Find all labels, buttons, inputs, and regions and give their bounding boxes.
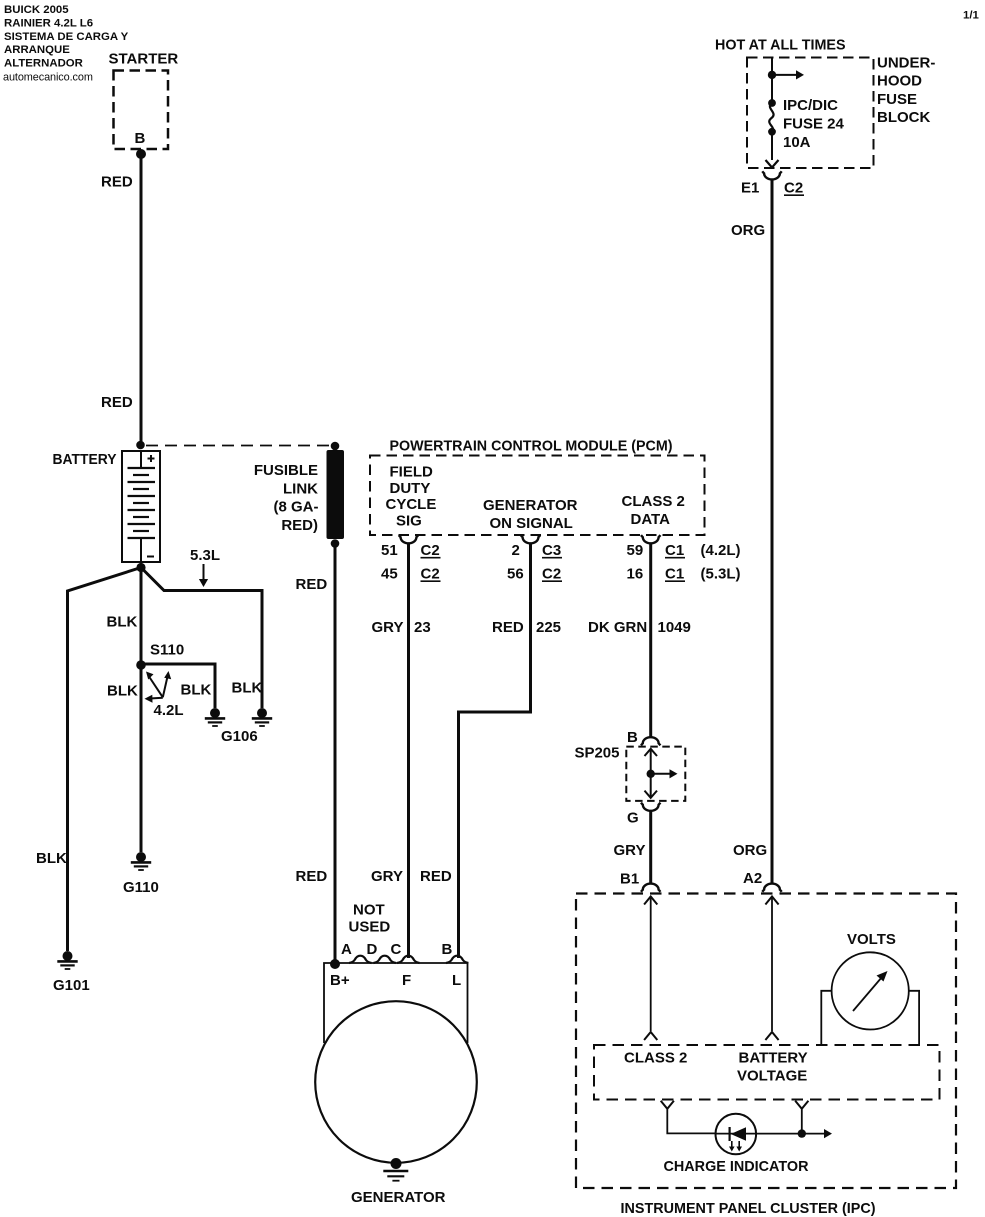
svg-text:POWERTRAIN CONTROL MODULE (PCM: POWERTRAIN CONTROL MODULE (PCM) bbox=[390, 438, 673, 455]
volts gauge needle bbox=[853, 971, 888, 1011]
ground G106 left bbox=[205, 708, 225, 726]
pin label C2 bbox=[542, 566, 562, 583]
svg-text:B: B bbox=[135, 130, 146, 147]
svg-text:RED: RED bbox=[492, 619, 524, 636]
fuse 24 bottom dot bbox=[768, 128, 776, 136]
svg-text:RED: RED bbox=[296, 576, 328, 593]
generator bump D bbox=[374, 956, 396, 963]
arrow feed to other circuits bbox=[772, 70, 804, 79]
svg-text:RED): RED) bbox=[281, 517, 318, 534]
LED emission arrows bbox=[729, 1141, 742, 1152]
dashed tie wire battery to fusible link bbox=[146, 445, 331, 447]
svg-text:225: 225 bbox=[536, 619, 561, 636]
LED triangle bbox=[731, 1127, 746, 1141]
generator bump B bbox=[446, 956, 468, 963]
svg-text:FUSE 24: FUSE 24 bbox=[783, 116, 845, 133]
generator bump A bbox=[349, 956, 371, 963]
svg-text:BLK: BLK bbox=[107, 614, 138, 631]
label BATTERY VOLTAGE bbox=[737, 1050, 808, 1085]
node B junction dot bbox=[136, 149, 146, 159]
battery top lead bbox=[140, 451, 142, 468]
pin label C3 bbox=[542, 542, 562, 559]
wire ORG fuse block to IPC A2 bbox=[771, 180, 774, 884]
svg-text:59: 59 bbox=[627, 542, 644, 559]
svg-text:CHARGE INDICATOR: CHARGE INDICATOR bbox=[664, 1158, 809, 1175]
svg-text:FIELD: FIELD bbox=[390, 464, 433, 481]
SP205 arrow right bbox=[651, 769, 678, 778]
LED cathode bar bbox=[728, 1127, 730, 1141]
svg-text:23: 23 bbox=[414, 619, 431, 636]
wire fuse to connector bbox=[771, 132, 773, 160]
svg-text:56: 56 bbox=[507, 566, 524, 583]
svg-text:DK GRN: DK GRN bbox=[588, 619, 647, 636]
svg-text:C2: C2 bbox=[421, 566, 440, 583]
PCM pin 51 connector cup bbox=[399, 535, 418, 543]
pin label C2 bbox=[784, 180, 804, 197]
svg-text:GENERATOR: GENERATOR bbox=[351, 1189, 446, 1206]
pin label C2 bbox=[421, 566, 441, 583]
svg-text:A: A bbox=[341, 941, 352, 958]
ground G110 bbox=[131, 852, 151, 870]
header title block bbox=[3, 4, 129, 84]
volts gauge circle bbox=[832, 952, 909, 1029]
svg-text:B: B bbox=[627, 729, 638, 746]
generator body box bbox=[324, 963, 468, 1043]
wire BLK battery to S110 bbox=[140, 568, 143, 666]
svg-text:16: 16 bbox=[627, 566, 644, 583]
wire GRY SP205 to IPC B1 bbox=[649, 811, 652, 883]
connector cup B1 bbox=[641, 884, 660, 892]
wire RED starter to battery bbox=[140, 154, 143, 445]
svg-text:ARRANQUE: ARRANQUE bbox=[4, 44, 70, 56]
arrow 4.2L pointer left bbox=[145, 695, 163, 703]
svg-text:4.2L: 4.2L bbox=[154, 702, 184, 719]
svg-text:BLK: BLK bbox=[232, 680, 263, 697]
fusible link bottom dot bbox=[331, 539, 340, 548]
svg-text:GRY: GRY bbox=[614, 842, 646, 859]
underhood fuse block dashed box bbox=[747, 58, 874, 169]
svg-text:ORG: ORG bbox=[731, 222, 765, 239]
battery top junction dot bbox=[136, 441, 145, 450]
svg-text:FUSIBLE: FUSIBLE bbox=[254, 462, 318, 479]
junction dot feed bbox=[768, 71, 776, 79]
wire RED 225 PCM to generator L bbox=[459, 543, 531, 958]
splice SP205 dashed box bbox=[626, 747, 685, 801]
svg-text:RED: RED bbox=[101, 394, 133, 411]
svg-text:IPC/DIC: IPC/DIC bbox=[783, 97, 838, 114]
arrow 4.2L pointer to wire bbox=[163, 671, 171, 697]
PCM pin 59 connector cup bbox=[641, 535, 660, 543]
svg-text:SIG: SIG bbox=[396, 512, 422, 529]
svg-text:VOLTAGE: VOLTAGE bbox=[737, 1067, 807, 1084]
svg-text:1/1: 1/1 bbox=[963, 10, 979, 22]
wire inside fuse block bbox=[771, 58, 773, 104]
wire DK GRN 1049 PCM to SP205 bbox=[649, 543, 652, 737]
svg-text:A2: A2 bbox=[743, 870, 762, 887]
SP205 junction dot bbox=[647, 770, 655, 778]
svg-text:2: 2 bbox=[512, 542, 520, 559]
svg-text:C: C bbox=[391, 941, 402, 958]
battery bottom junction dot bbox=[136, 563, 145, 572]
svg-text:B: B bbox=[442, 941, 453, 958]
generator ground dot bbox=[391, 1158, 402, 1169]
svg-text:D: D bbox=[367, 941, 378, 958]
label NOT USED bbox=[349, 902, 391, 936]
wire RED fusible link to generator B+ bbox=[334, 544, 337, 965]
connector cup G below SP205 bbox=[641, 803, 660, 811]
label CLASS 2 DATA bbox=[622, 493, 685, 528]
battery B1 box bbox=[122, 451, 160, 562]
svg-text:UNDER-: UNDER- bbox=[877, 55, 935, 72]
charge indicator lamp circle bbox=[716, 1114, 757, 1155]
svg-text:C1: C1 bbox=[665, 542, 684, 559]
battery voltage terminal right bbox=[795, 1101, 808, 1134]
label UNDER-HOOD FUSE BLOCK bbox=[877, 55, 935, 127]
label IPC/DIC FUSE 24 10A bbox=[783, 97, 845, 151]
svg-text:B+: B+ bbox=[330, 972, 350, 989]
svg-text:GRY: GRY bbox=[371, 868, 403, 885]
pin label C1 bbox=[665, 566, 685, 583]
pin label C1 bbox=[665, 542, 685, 559]
SP205 internal wire up arrow bbox=[645, 749, 658, 798]
svg-text:L: L bbox=[452, 972, 461, 989]
svg-text:HOT AT ALL TIMES: HOT AT ALL TIMES bbox=[715, 37, 846, 54]
arrow 5.3L pointer bbox=[199, 564, 208, 587]
svg-text:G106: G106 bbox=[221, 728, 258, 745]
svg-text:BATTERY: BATTERY bbox=[739, 1050, 808, 1067]
ground G106 right bbox=[252, 708, 272, 726]
generator circle bbox=[315, 1001, 477, 1163]
wire BLK battery to G101 bbox=[68, 568, 142, 952]
wire S110 right arm to G106 bbox=[144, 664, 215, 708]
svg-text:45: 45 bbox=[381, 566, 398, 583]
svg-text:ON SIGNAL: ON SIGNAL bbox=[490, 515, 573, 532]
svg-text:RED: RED bbox=[101, 174, 133, 191]
svg-text:BATTERY: BATTERY bbox=[53, 451, 117, 468]
fusible link top dot bbox=[331, 442, 340, 451]
volts gauge bracket left bbox=[821, 991, 832, 1045]
svg-text:51: 51 bbox=[381, 542, 398, 559]
svg-text:VOLTS: VOLTS bbox=[847, 931, 896, 948]
svg-text:B1: B1 bbox=[620, 871, 639, 888]
svg-text:GRY: GRY bbox=[372, 619, 404, 636]
IPC dashed box bbox=[576, 894, 956, 1189]
battery plates bbox=[128, 468, 156, 538]
label GENERATOR ON SIGNAL bbox=[483, 497, 578, 532]
svg-text:SP205: SP205 bbox=[574, 745, 619, 762]
PCM dashed box bbox=[370, 456, 705, 536]
connector cup A2 bbox=[762, 884, 781, 892]
svg-text:F: F bbox=[402, 972, 411, 989]
wire through charge indicator bbox=[716, 1133, 826, 1135]
battery + sign bbox=[148, 455, 155, 462]
SP205 down chevron bbox=[645, 791, 658, 798]
svg-text:E1: E1 bbox=[741, 180, 759, 197]
splice S110 dot bbox=[136, 660, 146, 670]
wire GRY 23 PCM to generator F bbox=[407, 543, 410, 958]
svg-text:CLASS 2: CLASS 2 bbox=[622, 493, 685, 510]
connector cup E1/C2 bbox=[762, 171, 781, 179]
svg-text:USED: USED bbox=[349, 918, 391, 935]
svg-text:INSTRUMENT PANEL CLUSTER (IPC): INSTRUMENT PANEL CLUSTER (IPC) bbox=[621, 1200, 876, 1217]
label FIELD DUTY CYCLE SIG bbox=[386, 464, 437, 530]
svg-text:LINK: LINK bbox=[283, 480, 318, 497]
connector cup B above SP205 bbox=[641, 737, 660, 745]
svg-text:NOT: NOT bbox=[353, 902, 385, 919]
svg-text:DATA: DATA bbox=[631, 511, 671, 528]
svg-text:C1: C1 bbox=[665, 566, 684, 583]
PCM pin 2 connector cup bbox=[521, 535, 540, 543]
svg-text:ORG: ORG bbox=[733, 842, 767, 859]
svg-text:FUSE: FUSE bbox=[877, 91, 917, 108]
fuse 24 top dot bbox=[768, 99, 776, 107]
svg-text:1049: 1049 bbox=[658, 619, 691, 636]
svg-text:STARTER: STARTER bbox=[109, 51, 179, 68]
svg-text:G101: G101 bbox=[53, 977, 90, 994]
generator ground bbox=[383, 1171, 408, 1181]
svg-text:G: G bbox=[627, 810, 639, 827]
svg-text:BLK: BLK bbox=[36, 850, 67, 867]
svg-text:C2: C2 bbox=[542, 566, 561, 583]
generator B+ junction dot bbox=[330, 959, 340, 969]
svg-text:BLOCK: BLOCK bbox=[877, 109, 930, 126]
svg-text:BLK: BLK bbox=[181, 682, 212, 699]
starter dashed box bbox=[114, 71, 169, 150]
pin label C2 bbox=[421, 542, 441, 559]
fuse 24 element bbox=[769, 103, 773, 132]
svg-text:C2: C2 bbox=[784, 180, 803, 197]
svg-text:(4.2L): (4.2L) bbox=[701, 542, 741, 559]
svg-text:C2: C2 bbox=[421, 542, 440, 559]
battery bottom lead bbox=[140, 538, 142, 562]
svg-text:G110: G110 bbox=[123, 879, 159, 896]
volts gauge bracket right bbox=[909, 991, 920, 1045]
svg-text:CYCLE: CYCLE bbox=[386, 496, 437, 513]
svg-text:RED: RED bbox=[420, 868, 452, 885]
svg-text:RED: RED bbox=[296, 868, 328, 885]
svg-text:CLASS 2: CLASS 2 bbox=[624, 1050, 687, 1067]
IPC inner dashed box bbox=[594, 1045, 940, 1100]
svg-text:10A: 10A bbox=[783, 134, 811, 151]
ground G101 bbox=[57, 951, 77, 969]
arrow charge indicator out bbox=[824, 1129, 832, 1138]
junction dot charge indicator bbox=[798, 1129, 806, 1137]
wire BLK S110 to G110 bbox=[140, 665, 143, 852]
battery - sign bbox=[147, 556, 154, 558]
svg-text:RAINIER 4.2L L6: RAINIER 4.2L L6 bbox=[4, 17, 93, 29]
svg-text:5.3L: 5.3L bbox=[190, 547, 220, 564]
svg-text:BLK: BLK bbox=[107, 683, 138, 700]
svg-text:(8 GA-: (8 GA- bbox=[274, 499, 319, 516]
charge indicator feed terminal bbox=[661, 1101, 716, 1134]
svg-text:SISTEMA DE CARGA Y: SISTEMA DE CARGA Y bbox=[4, 31, 129, 43]
svg-text:automecanico.com: automecanico.com bbox=[3, 72, 93, 84]
chevron arrow into E1 bbox=[766, 160, 779, 168]
svg-text:BUICK 2005: BUICK 2005 bbox=[4, 4, 69, 16]
svg-text:DUTY: DUTY bbox=[390, 480, 431, 497]
svg-text:HOOD: HOOD bbox=[877, 73, 922, 90]
generator bump C bbox=[397, 956, 419, 963]
wire BLK battery right branch 5.3L bbox=[141, 568, 262, 709]
wire class 2 inside IPC bbox=[644, 896, 657, 1040]
svg-text:(5.3L): (5.3L) bbox=[701, 566, 741, 583]
arrow 4.2L pointer to S110 bbox=[146, 672, 163, 698]
label FUSIBLE LINK (8 GA- RED) bbox=[254, 462, 319, 534]
wire battery voltage inside IPC bbox=[765, 896, 778, 1040]
svg-text:ALTERNADOR: ALTERNADOR bbox=[4, 58, 83, 70]
svg-text:GENERATOR: GENERATOR bbox=[483, 497, 578, 514]
svg-text:C3: C3 bbox=[542, 542, 561, 559]
svg-text:S110: S110 bbox=[150, 642, 184, 659]
fusible link bar bbox=[327, 450, 345, 539]
